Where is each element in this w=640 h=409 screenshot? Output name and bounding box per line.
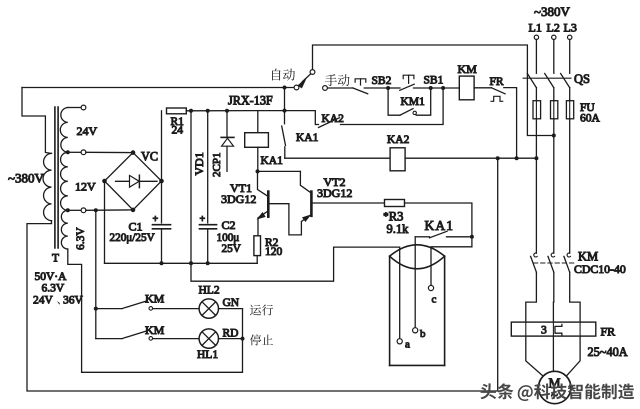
contact FR normally-closed thermal bbox=[491, 88, 517, 159]
node KM coil input dot bbox=[441, 86, 445, 90]
motor M circle bbox=[539, 371, 571, 403]
terminal manual (shoudong) bbox=[323, 86, 328, 91]
label VT2 bbox=[324, 175, 346, 189]
wire tap2 terminal to bridge bottom vertex bbox=[86, 209, 133, 211]
node rail dot branch down bbox=[496, 156, 500, 160]
svg-text:25V: 25V bbox=[222, 243, 241, 255]
label 24V,36V rating bbox=[33, 295, 84, 307]
diode 2CP1 bbox=[221, 111, 234, 172]
wire R3 to electrode c node bbox=[405, 203, 472, 235]
electrode a tip circle bbox=[397, 339, 402, 344]
wire rail to KA1 coil bbox=[257, 111, 259, 133]
contactor coil KM box bbox=[459, 76, 474, 100]
svg-text:KA2: KA2 bbox=[322, 113, 345, 125]
wire KA2 coil to L1 rail bbox=[405, 157, 536, 159]
contactor KM main contact L1 bbox=[526, 253, 537, 322]
label KA1 coil bbox=[261, 155, 284, 167]
label KM main bbox=[578, 250, 598, 264]
wire C2 column top bbox=[207, 111, 209, 223]
fuse FU L1 bbox=[533, 88, 541, 119]
contact KA2 branch bbox=[285, 88, 444, 128]
wire L3 fuse to KM contact bbox=[569, 119, 571, 253]
label auto (zidong) bbox=[272, 69, 295, 81]
svg-text:6.3V: 6.3V bbox=[42, 283, 65, 295]
label stop (tingzhi) bbox=[250, 334, 273, 345]
label C2 value 100u bbox=[217, 232, 240, 244]
svg-text:24: 24 bbox=[172, 125, 184, 137]
lamp HL1 red bbox=[199, 329, 218, 348]
label R2 value 120 bbox=[265, 246, 283, 258]
wire R1 to rail right bbox=[186, 110, 282, 112]
rectifier bridge inner diode bbox=[116, 175, 158, 187]
transistor VT2 bbox=[289, 171, 385, 235]
svg-text:24V: 24V bbox=[77, 124, 98, 138]
label SB1 bbox=[424, 75, 444, 87]
wire SB1 output to KM coil bbox=[431, 87, 460, 89]
FR box phase lines inside bbox=[526, 322, 580, 336]
label 6.3V (rotated) bbox=[75, 227, 87, 250]
svg-text:25~40A: 25~40A bbox=[588, 345, 628, 359]
svg-text:~380V: ~380V bbox=[8, 171, 45, 186]
wire secondary top lead to 24V terminal bbox=[68, 107, 81, 109]
label L3 bbox=[564, 21, 577, 35]
svg-text:QS: QS bbox=[574, 72, 590, 86]
wire L2 drop bbox=[553, 40, 555, 74]
svg-text:RD: RD bbox=[223, 328, 239, 340]
label 12V bbox=[75, 180, 96, 194]
node rail dot FR drop bbox=[515, 156, 519, 160]
label *R3 bbox=[383, 210, 403, 224]
label JRX-13F bbox=[228, 94, 273, 108]
wire negative bottom rail bbox=[105, 262, 258, 264]
capacitor C1 plates bbox=[153, 225, 171, 264]
label 6.3V rating bbox=[42, 283, 65, 295]
svg-text:KA1: KA1 bbox=[425, 218, 455, 233]
wire top control rail from auto-switch to L2 drop bbox=[313, 45, 552, 136]
svg-text:*: * bbox=[383, 212, 388, 223]
wire electrode b link bbox=[414, 237, 416, 328]
label HL2 bbox=[199, 285, 220, 297]
wire left frame bottom loop to right rail bbox=[27, 158, 498, 391]
label C1 value 220u/25V bbox=[110, 232, 155, 244]
wire L3 drop bbox=[569, 40, 571, 74]
node junction dot at auto switch feed bbox=[283, 86, 287, 90]
contactor KM main contact L2 bbox=[548, 253, 555, 322]
wire tap1 to 12V terminal bbox=[68, 151, 81, 153]
label running (yunxing) bbox=[250, 304, 273, 315]
svg-text:CDC10-40: CDC10-40 bbox=[574, 262, 626, 276]
svg-text:SB2: SB2 bbox=[372, 75, 392, 87]
wire bridge right vertex to R1 and C1 bbox=[161, 111, 163, 223]
watermark toutiao text bbox=[480, 383, 634, 401]
switch QS linkage bar bbox=[523, 77, 571, 79]
label R1 value 24 bbox=[172, 125, 184, 137]
node negative rail dot C1 bbox=[160, 261, 164, 265]
label C1 bbox=[129, 220, 143, 234]
svg-text:KA2: KA2 bbox=[387, 134, 410, 146]
wire KM coil to FR bbox=[474, 87, 491, 89]
pushbutton SB2 normally-closed bbox=[353, 79, 386, 94]
svg-text:L3: L3 bbox=[564, 21, 577, 35]
label 50V·A bbox=[35, 271, 68, 283]
node rail dot VD1 top bbox=[189, 109, 193, 113]
terminal L3 bbox=[568, 35, 572, 39]
label R3 value 9.1k bbox=[387, 222, 410, 236]
label HL1 bbox=[197, 349, 218, 361]
contact KA1 water-level bbox=[415, 231, 470, 238]
label KM type CDC10-40 bbox=[574, 262, 626, 276]
svg-text:120: 120 bbox=[265, 246, 283, 258]
svg-text:JRX-13F: JRX-13F bbox=[228, 94, 273, 108]
wire L2 to motor bbox=[552, 336, 554, 371]
node rail dot on L1 bbox=[534, 156, 538, 160]
fuse FU L2 bbox=[551, 88, 558, 119]
label QS bbox=[574, 72, 590, 86]
water tank walls bbox=[390, 256, 445, 365]
label VC bbox=[141, 150, 158, 164]
label manual (shoudong) bbox=[325, 74, 350, 86]
label electrode b bbox=[420, 328, 426, 340]
water tank surface lens bbox=[390, 245, 445, 269]
label SB2 bbox=[372, 75, 392, 87]
label 24V bbox=[77, 124, 98, 138]
svg-text:36V: 36V bbox=[63, 295, 84, 307]
svg-text:60A: 60A bbox=[580, 113, 601, 125]
svg-text:KA1: KA1 bbox=[261, 155, 284, 167]
svg-text:C2: C2 bbox=[222, 218, 236, 232]
relay coil KA1 box bbox=[245, 133, 269, 148]
transistor VT1 bbox=[258, 171, 289, 235]
node bridge top vertex dot bbox=[131, 150, 136, 155]
label VT2 type 3DG12 bbox=[317, 186, 352, 200]
node secondary tap2 dot bbox=[66, 208, 70, 212]
resistor R3 box bbox=[385, 200, 405, 207]
wire HL1 to right leg bbox=[219, 338, 243, 340]
transformer secondary winding 24V section bbox=[60, 108, 68, 153]
label L1 bbox=[529, 21, 542, 35]
wire 12V tap to bridge top vertex bbox=[86, 151, 133, 153]
switch auto (zidong) moving contact bbox=[294, 70, 315, 90]
resistor R2 box bbox=[254, 236, 261, 256]
wire KA1 coil to node bbox=[257, 147, 259, 171]
svg-text:3DG12: 3DG12 bbox=[221, 192, 256, 206]
label ~380V three-phase bbox=[534, 4, 571, 19]
label L2 bbox=[547, 21, 560, 35]
node lamp rail dot bbox=[94, 307, 98, 311]
svg-text:6.3V: 6.3V bbox=[75, 227, 87, 250]
label KA2 coil bbox=[387, 134, 410, 146]
wire control feed y87 from transformer primary to auto switch bbox=[22, 87, 294, 89]
label KA1 water contact bbox=[425, 218, 455, 233]
FR heater symbol bbox=[555, 324, 562, 335]
wire HL2 to right leg bbox=[219, 308, 243, 310]
node L2 control tap dot bbox=[552, 134, 556, 138]
node lamps right dot bbox=[241, 337, 245, 341]
wire manual terminal to SB2 bbox=[328, 87, 353, 89]
svg-text:a: a bbox=[405, 339, 410, 351]
wire L1 drop bbox=[535, 40, 537, 74]
label FU bbox=[580, 102, 595, 114]
svg-text:3: 3 bbox=[541, 325, 547, 337]
rectifier bridge VC diamond bbox=[105, 153, 162, 210]
contactor KM main contact L3 bbox=[564, 253, 580, 322]
wire collector node to VT2 bbox=[258, 170, 301, 172]
transformer core bbox=[55, 107, 58, 248]
node bridge right vertex dot bbox=[159, 179, 164, 184]
contact KA1 vertical bbox=[282, 111, 286, 159]
wire L1 to motor bbox=[526, 336, 543, 376]
svg-text:2CP1: 2CP1 bbox=[211, 153, 223, 177]
label VT1 type 3DG12 bbox=[221, 192, 256, 206]
wire L2 fuse to KM contact bbox=[553, 119, 555, 253]
svg-text:SB1: SB1 bbox=[424, 75, 444, 87]
switch QS pole L3 bbox=[561, 74, 570, 88]
label KM1 bbox=[401, 96, 426, 108]
contact KM auxiliary upper bbox=[96, 301, 199, 310]
contact KM1 hold-in bbox=[388, 88, 431, 115]
label FR contact bbox=[490, 76, 504, 88]
label 25~40A bbox=[588, 345, 628, 359]
wire electrode c link bbox=[431, 237, 472, 286]
label VT1 bbox=[230, 181, 252, 195]
svg-text:VC: VC bbox=[141, 150, 158, 164]
svg-text:KA1: KA1 bbox=[296, 132, 319, 144]
node rail dot 2CP1 top bbox=[225, 109, 229, 113]
node bridge left vertex dot bbox=[102, 179, 107, 184]
svg-text:T: T bbox=[52, 253, 59, 265]
contactor KM linkage dashed line bbox=[534, 262, 577, 264]
electrode c tip circle bbox=[428, 285, 433, 290]
node SB1 output dot bbox=[429, 86, 433, 90]
svg-text:L2: L2 bbox=[547, 21, 560, 35]
node lamp-rail tap dot bbox=[94, 208, 98, 212]
wire VD1 column and ground return to tank electrode a bbox=[191, 111, 400, 339]
transformer secondary winding 6.3V section bbox=[61, 210, 67, 249]
label GN bbox=[223, 297, 240, 309]
node bridge bottom vertex dot bbox=[131, 208, 136, 213]
svg-text:VD1: VD1 bbox=[192, 152, 206, 175]
wire secondary bottom lead bbox=[68, 249, 82, 372]
svg-text:KM: KM bbox=[458, 62, 478, 76]
svg-text:12V: 12V bbox=[75, 180, 96, 194]
svg-text:KM: KM bbox=[145, 323, 165, 337]
label C2 bbox=[222, 218, 236, 232]
label RD bbox=[223, 328, 239, 340]
label VD1 (rotated) bbox=[192, 152, 206, 175]
label KA1 contact bbox=[296, 132, 319, 144]
wire bridge left vertex down to negative rail bbox=[104, 181, 106, 263]
wire R2 to negative rail bbox=[256, 256, 258, 264]
wire L1 fuse to KM contact bbox=[535, 119, 537, 253]
lamp HL2 green bbox=[199, 299, 218, 318]
contact KM auxiliary lower bbox=[96, 331, 199, 340]
svg-text:50V·A: 50V·A bbox=[35, 271, 68, 283]
node electrode c junction dot bbox=[470, 235, 474, 239]
pushbutton SB1 normally-open bbox=[388, 75, 428, 90]
label 60A bbox=[580, 113, 601, 125]
node secondary tap1 dot bbox=[66, 150, 70, 154]
label KM coil bbox=[458, 62, 478, 76]
svg-text:c: c bbox=[432, 294, 437, 306]
wire auto column down bbox=[284, 88, 286, 111]
label 2CP1 (rotated) bbox=[211, 153, 223, 177]
label FR box bbox=[601, 325, 616, 339]
capacitor C1 plus sign bbox=[153, 214, 159, 225]
label electrode a bbox=[405, 339, 410, 351]
svg-text:+: + bbox=[153, 214, 159, 225]
switch QS pole L2 bbox=[545, 74, 554, 88]
terminal L2 bbox=[552, 35, 556, 39]
wire lamp rail from 6.3V tap bbox=[95, 210, 97, 338]
terminal L1 bbox=[534, 35, 538, 39]
terminal 24V open circle bbox=[81, 105, 86, 110]
capacitor C2 plus sign bbox=[200, 214, 206, 225]
node rail dot C2 top bbox=[206, 109, 210, 113]
wire L3 to motor bbox=[566, 336, 580, 376]
wire lamps right leg bbox=[82, 309, 243, 373]
wire left frame: primary top feed bbox=[22, 88, 52, 154]
node negative rail dot VD1 bbox=[189, 261, 193, 265]
svg-text:GN: GN bbox=[223, 297, 240, 309]
svg-text:L1: L1 bbox=[529, 21, 542, 35]
switch QS pole L1 bbox=[527, 74, 536, 88]
svg-text:KM1: KM1 bbox=[401, 96, 426, 108]
label KA2 contact bbox=[322, 113, 345, 125]
svg-text:FR: FR bbox=[490, 76, 504, 88]
electrode b tip circle bbox=[413, 328, 418, 333]
svg-text:+: + bbox=[200, 214, 206, 225]
label KM aux upper bbox=[145, 292, 165, 306]
relay coil KA2 box bbox=[390, 148, 405, 171]
label M motor bbox=[548, 376, 560, 403]
fuse FU L3 bbox=[566, 88, 573, 119]
node SB2-SB1 junction dot bbox=[386, 86, 390, 90]
transformer secondary winding 12V section bbox=[61, 152, 68, 210]
label ~380V primary bbox=[8, 171, 45, 186]
terminal 6.3V tap open circle bbox=[81, 208, 86, 213]
svg-text:FR: FR bbox=[601, 325, 616, 339]
svg-text:9.1k: 9.1k bbox=[387, 222, 410, 236]
svg-text:KM: KM bbox=[145, 292, 165, 306]
label C2 value 25V bbox=[222, 243, 241, 255]
terminal 12V tap open circle bbox=[81, 150, 86, 155]
thermal relay FR box bbox=[511, 322, 596, 336]
label R1 bbox=[171, 116, 185, 128]
svg-text:3DG12: 3DG12 bbox=[317, 186, 352, 200]
label T bbox=[52, 253, 59, 265]
wire tap2 to terminal bbox=[68, 209, 81, 211]
label 3 in FR box bbox=[541, 325, 547, 337]
svg-text:HL2: HL2 bbox=[199, 285, 220, 297]
svg-text:~380V: ~380V bbox=[534, 4, 571, 19]
label electrode c bbox=[432, 294, 437, 306]
capacitor C2 plates bbox=[200, 225, 217, 264]
resistor R1 box bbox=[167, 108, 187, 114]
label R2 bbox=[265, 237, 279, 249]
label KM aux lower bbox=[145, 323, 165, 337]
svg-text:220μ/25V: 220μ/25V bbox=[110, 232, 155, 244]
transformer T primary winding ~380V bbox=[43, 153, 51, 220]
svg-text:b: b bbox=[420, 328, 426, 340]
wire KA1 contact to KA2 coil bbox=[285, 157, 390, 159]
svg-text:HL1: HL1 bbox=[197, 349, 218, 361]
svg-text:24V: 24V bbox=[33, 295, 54, 307]
node rail junction dot at KA1 contact column bbox=[283, 109, 287, 113]
node VT collector junction dot bbox=[256, 169, 260, 173]
node negative rail dot C2 bbox=[206, 261, 210, 265]
